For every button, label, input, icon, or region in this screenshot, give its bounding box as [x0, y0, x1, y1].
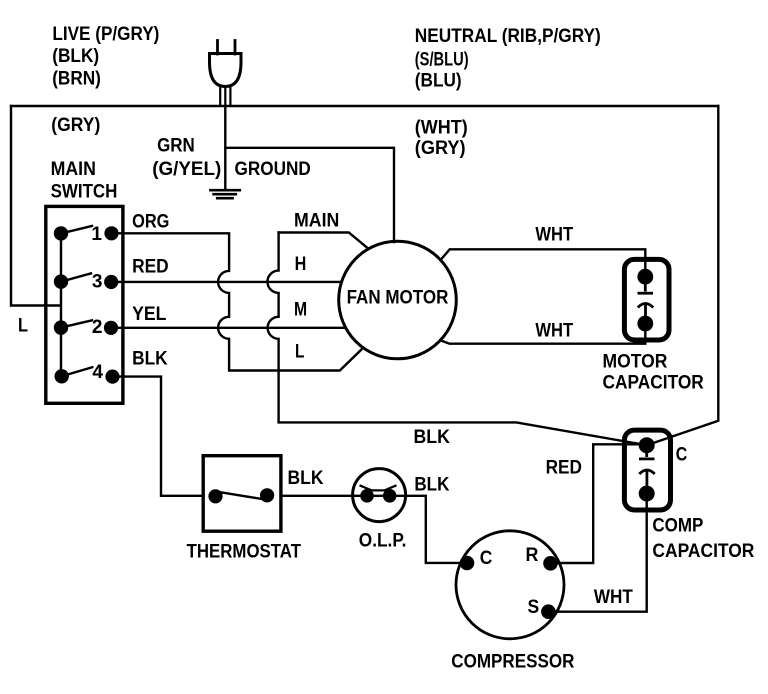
svg-text:(BLU): (BLU)	[415, 70, 462, 91]
svg-text:MOTOR: MOTOR	[603, 352, 668, 373]
label GRN (G/YEL)	[152, 136, 221, 181]
svg-text:BLK: BLK	[414, 427, 451, 448]
svg-text:(GRY): (GRY)	[51, 115, 100, 136]
switch S1 left terminal column wire	[60, 233, 62, 376]
label LIVE block	[52, 24, 159, 90]
svg-text:(BRN): (BRN)	[52, 69, 101, 90]
switch S1 blade 3	[61, 273, 91, 281]
svg-text:GRN: GRN	[157, 136, 195, 157]
label COMP CAPACITOR	[652, 516, 754, 562]
fan motor M1	[339, 241, 457, 359]
svg-text:LIVE (P/GRY): LIVE (P/GRY)	[52, 24, 159, 45]
svg-text:L: L	[295, 342, 305, 363]
svg-text:C: C	[676, 444, 688, 465]
switch S1 blade 2	[61, 320, 92, 327]
svg-text:NEUTRAL (RIB,P/GRY): NEUTRAL (RIB,P/GRY)	[415, 26, 601, 47]
svg-text:YEL: YEL	[132, 304, 167, 325]
svg-text:L: L	[18, 316, 28, 337]
svg-text:RED: RED	[132, 256, 169, 277]
svg-text:BLK: BLK	[288, 468, 324, 489]
svg-text:WHT: WHT	[535, 321, 573, 342]
wire: top supply bus	[11, 105, 718, 107]
svg-text:C: C	[480, 548, 493, 569]
svg-text:(GRY): (GRY)	[415, 138, 466, 159]
switch S1 blade 1	[61, 226, 92, 233]
svg-text:3: 3	[92, 272, 103, 293]
label NEUTRAL block	[415, 26, 601, 91]
svg-text:CAPACITOR: CAPACITOR	[603, 372, 705, 393]
O.L.P. overload protector	[353, 469, 406, 522]
switch S1 left contact dots	[54, 226, 68, 240]
svg-text:FAN MOTOR: FAN MOTOR	[347, 287, 449, 308]
svg-text:THERMOSTAT: THERMOSTAT	[187, 542, 302, 563]
ground symbol	[210, 190, 239, 198]
svg-text:(WHT): (WHT)	[415, 118, 468, 139]
wire through O.L.P.	[353, 495, 406, 497]
svg-text:R: R	[526, 545, 539, 566]
label MAIN SWITCH	[51, 159, 118, 203]
wire YEL: pin2 to fan motor M lead	[111, 327, 345, 329]
svg-text:(BLK): (BLK)	[52, 46, 99, 67]
svg-text:WHT: WHT	[594, 587, 633, 608]
svg-text:S: S	[528, 597, 540, 618]
svg-text:1: 1	[91, 224, 102, 245]
power plug P1	[210, 41, 242, 106]
svg-text:BLK: BLK	[132, 349, 168, 370]
motor capacitor C1	[624, 259, 669, 340]
svg-text:COMP: COMP	[652, 516, 703, 537]
svg-text:WHT: WHT	[535, 225, 573, 246]
wire RED: pin3 to fan motor H lead	[111, 281, 341, 283]
wire BLK: O.L.P. to compressor C	[406, 496, 467, 563]
main switch S1 box	[46, 206, 123, 403]
wire colour labels at switch	[132, 211, 169, 369]
thermostat blade	[216, 492, 265, 500]
comp capacitor C2	[624, 430, 670, 510]
svg-text:SWITCH: SWITCH	[51, 182, 118, 203]
switch S1 right terminal dots 1,3,2,4	[104, 226, 118, 240]
wire: right neutral drop to comp capacitor	[647, 106, 719, 445]
label MOTOR CAPACITOR	[603, 352, 705, 394]
svg-text:ORG: ORG	[132, 211, 169, 232]
svg-text:O.L.P.: O.L.P.	[359, 531, 407, 552]
svg-text:MAIN: MAIN	[51, 159, 96, 180]
svg-text:GROUND: GROUND	[235, 159, 311, 180]
svg-text:CAPACITOR: CAPACITOR	[652, 541, 754, 562]
wire WHT: comp capacitor to compressor S	[548, 501, 646, 612]
svg-text:M: M	[294, 299, 307, 320]
switch pin numbers	[91, 224, 103, 383]
svg-text:(S/BLU): (S/BLU)	[415, 50, 469, 71]
wire RED: comp capacitor to compressor R	[551, 444, 647, 563]
svg-text:RED: RED	[546, 457, 582, 478]
wire: fan motor common down to comp capacitor (BLK), hops over H and M	[267, 233, 646, 446]
wire BLK: thermostat to O.L.P.	[281, 495, 353, 497]
svg-text:2: 2	[92, 317, 103, 338]
wire WHT: fan motor to motor capacitor top	[441, 249, 645, 276]
wire: ground lead from plug	[224, 106, 226, 188]
wire ORG: pin1 to fan motor L lead, hops over RED and YEL	[112, 233, 363, 370]
svg-text:(G/YEL): (G/YEL)	[152, 159, 221, 180]
switch S1 blade 4	[62, 367, 93, 376]
wire: left live drop to main switch	[11, 106, 61, 306]
thermostat contact dots	[208, 489, 222, 503]
compressor M2	[456, 531, 564, 639]
label (WHT)/(GRY) right	[415, 118, 468, 160]
wire BLK: pin4 down to thermostat	[113, 377, 204, 496]
thermostat box	[203, 456, 281, 532]
wire: green branch to fan motor frame	[225, 148, 394, 242]
svg-text:4: 4	[92, 362, 103, 383]
wire MAIN lead into fan motor	[279, 233, 367, 248]
svg-text:MAIN: MAIN	[294, 211, 339, 232]
svg-text:COMPRESSOR: COMPRESSOR	[451, 652, 574, 673]
wire WHT: fan motor to motor capacitor bottom	[441, 324, 645, 344]
svg-text:BLK: BLK	[414, 474, 449, 495]
svg-text:H: H	[295, 254, 307, 275]
